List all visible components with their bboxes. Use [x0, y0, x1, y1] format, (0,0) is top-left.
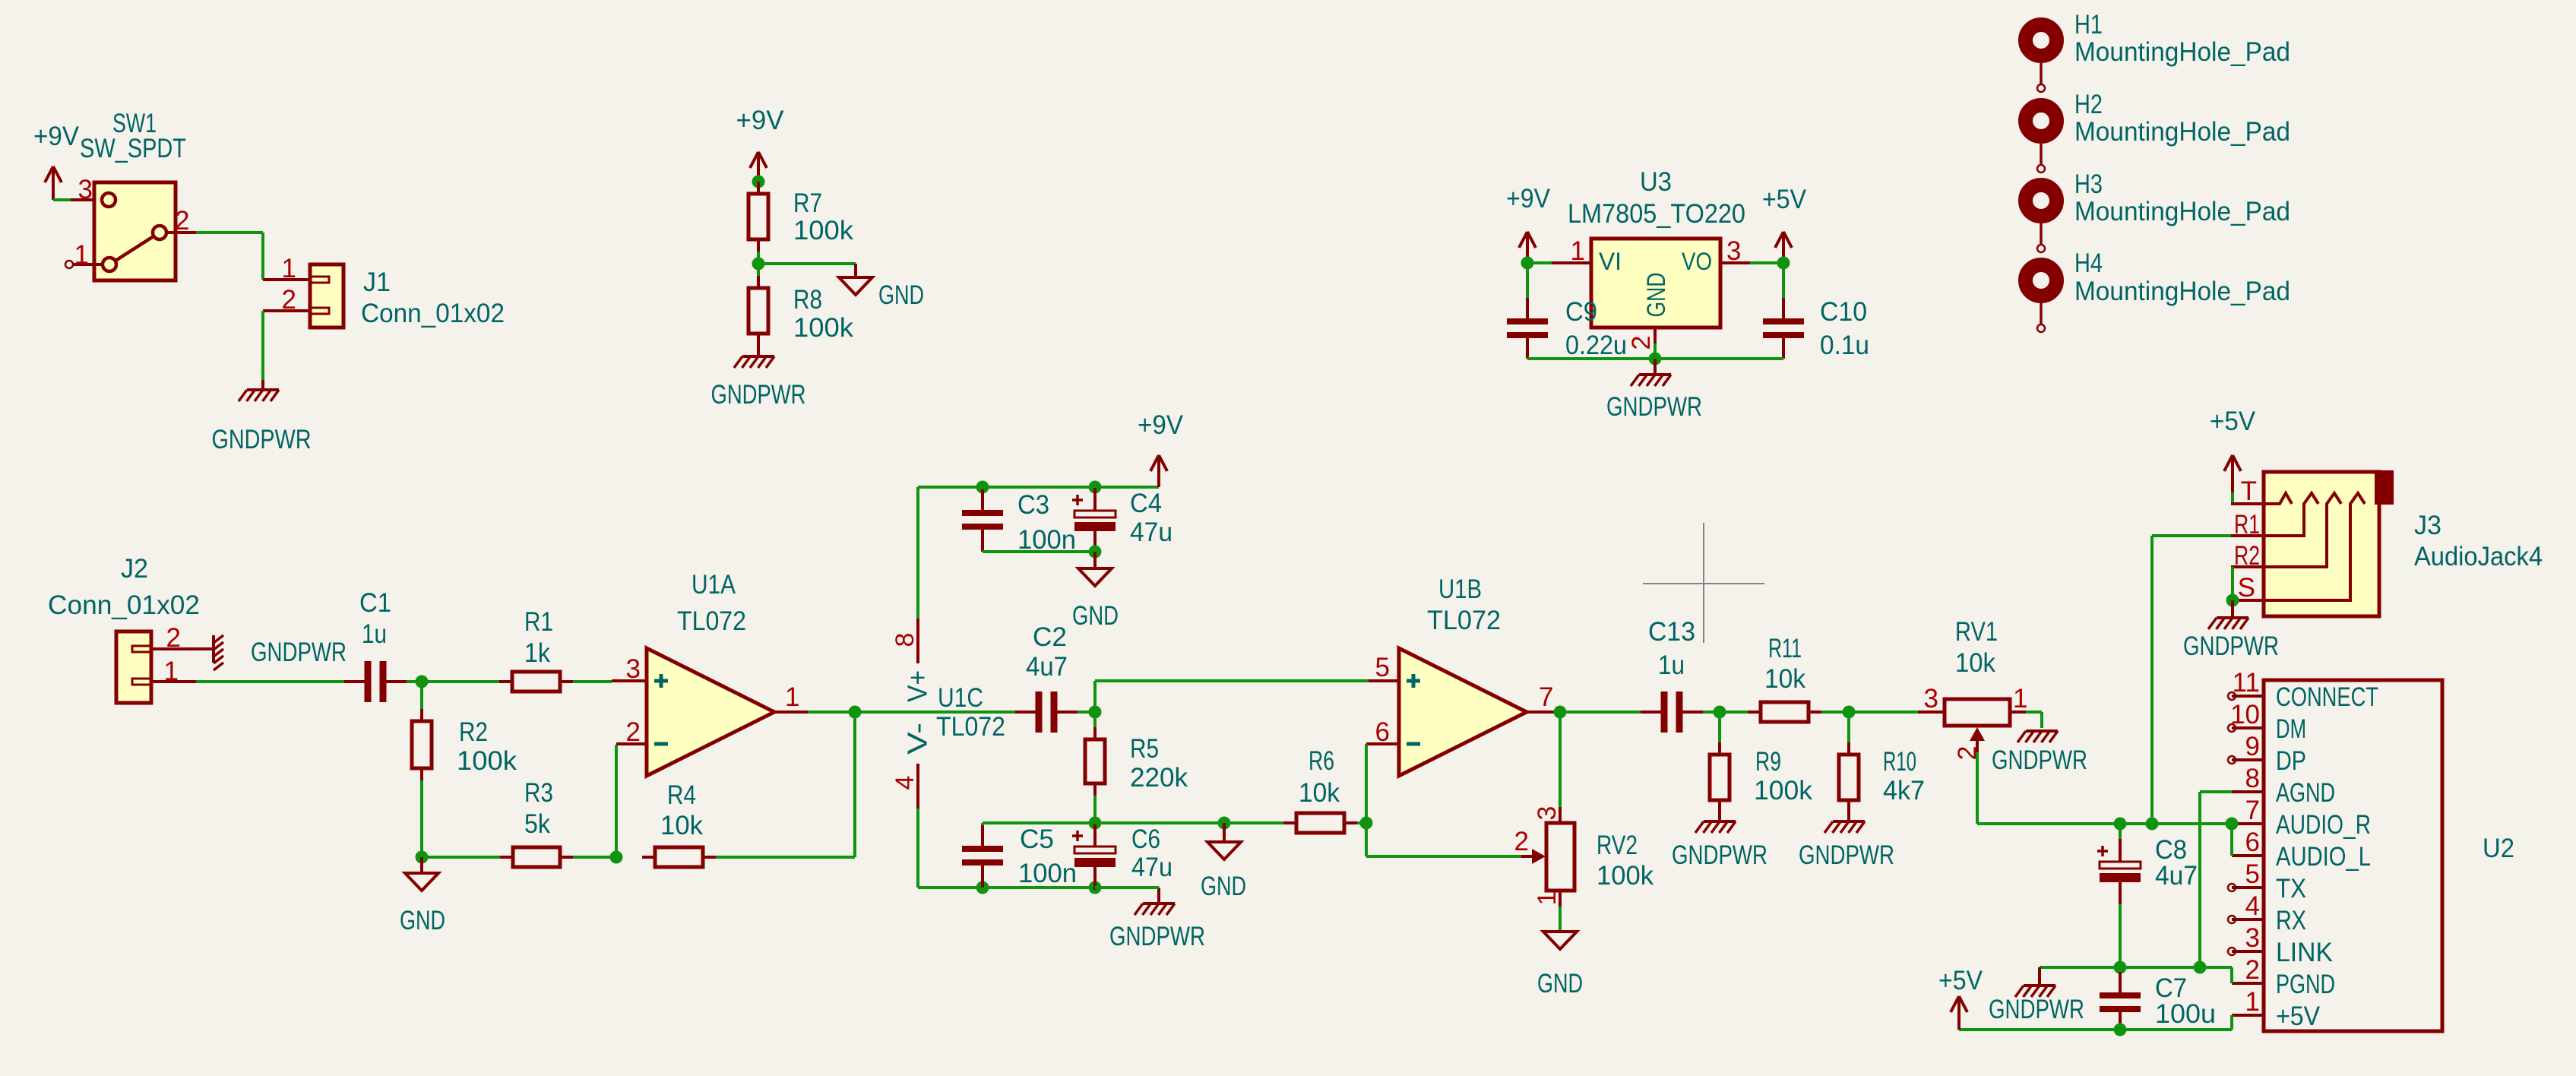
svg-text:10k: 10k — [1955, 648, 1995, 678]
svg-text:R3: R3 — [524, 778, 553, 808]
svg-text:GNDPWR: GNDPWR — [711, 380, 806, 410]
svg-text:C1: C1 — [359, 588, 391, 618]
svg-text:4u7: 4u7 — [1026, 652, 1068, 682]
svg-text:4u7: 4u7 — [2155, 861, 2198, 891]
svg-text:GND: GND — [878, 280, 924, 310]
svg-text:R10: R10 — [1883, 747, 1916, 777]
svg-text:10k: 10k — [1764, 664, 1805, 694]
svg-text:J1: J1 — [363, 267, 391, 297]
svg-text:3: 3 — [1533, 806, 1562, 821]
svg-text:R5: R5 — [1130, 734, 1159, 764]
svg-text:3: 3 — [1924, 684, 1938, 714]
svg-text:8: 8 — [2245, 764, 2260, 793]
svg-text:7: 7 — [1539, 682, 1553, 712]
svg-text:1: 1 — [74, 240, 89, 270]
svg-text:10k: 10k — [1299, 778, 1340, 808]
svg-text:1: 1 — [282, 254, 296, 283]
svg-text:C3: C3 — [1017, 490, 1049, 520]
svg-text:GND: GND — [1072, 601, 1119, 631]
svg-text:9: 9 — [2245, 732, 2260, 761]
svg-text:C6: C6 — [1131, 824, 1160, 854]
svg-text:LM7805_TO220: LM7805_TO220 — [1568, 199, 1745, 229]
svg-text:C10: C10 — [1820, 297, 1867, 327]
svg-text:R1: R1 — [2234, 510, 2260, 540]
svg-text:GNDPWR: GNDPWR — [251, 638, 347, 667]
svg-text:8: 8 — [891, 633, 919, 647]
svg-text:GNDPWR: GNDPWR — [1606, 392, 1702, 422]
svg-text:U1A: U1A — [691, 570, 736, 600]
svg-text:2: 2 — [1514, 827, 1529, 856]
svg-text:+9V: +9V — [736, 106, 785, 135]
svg-text:C13: C13 — [1648, 617, 1695, 647]
svg-text:DP: DP — [2276, 746, 2306, 776]
svg-text:100n: 100n — [1018, 859, 1077, 888]
svg-text:GND: GND — [1537, 969, 1583, 998]
svg-text:AUDIO_R: AUDIO_R — [2276, 810, 2371, 840]
svg-text:MountingHole_Pad: MountingHole_Pad — [2074, 117, 2290, 147]
svg-text:+5V: +5V — [1938, 966, 1983, 995]
svg-text:R8: R8 — [793, 285, 822, 315]
svg-text:1: 1 — [1533, 891, 1562, 906]
svg-text:100k: 100k — [1754, 776, 1812, 805]
svg-text:220k: 220k — [1130, 763, 1188, 793]
svg-text:100k: 100k — [457, 746, 517, 776]
svg-text:2: 2 — [626, 717, 641, 747]
svg-text:1: 1 — [164, 657, 179, 686]
svg-text:C9: C9 — [1565, 297, 1597, 327]
svg-text:2: 2 — [2245, 955, 2260, 985]
svg-text:+9V: +9V — [1506, 184, 1551, 214]
svg-text:3: 3 — [626, 654, 641, 684]
svg-text:GND: GND — [1642, 273, 1671, 318]
svg-text:GNDPWR: GNDPWR — [1989, 995, 2084, 1024]
svg-text:1k: 1k — [524, 638, 550, 668]
svg-text:U2: U2 — [2483, 834, 2514, 863]
svg-text:GND: GND — [400, 906, 445, 935]
svg-text:RX: RX — [2276, 906, 2306, 935]
svg-text:SW_SPDT: SW_SPDT — [80, 134, 186, 163]
svg-text:CONNECT: CONNECT — [2276, 682, 2378, 712]
svg-text:+9V: +9V — [1138, 410, 1184, 440]
svg-text:100k: 100k — [793, 313, 854, 343]
svg-text:GNDPWR: GNDPWR — [1799, 840, 1894, 870]
svg-text:1u: 1u — [362, 619, 387, 649]
svg-text:GND: GND — [1201, 872, 1246, 901]
svg-text:R2: R2 — [459, 717, 488, 747]
svg-text:47u: 47u — [1130, 517, 1172, 547]
svg-text:V-: V- — [902, 723, 933, 755]
svg-text:U1C: U1C — [938, 683, 983, 713]
svg-text:V+: V+ — [902, 670, 933, 702]
svg-text:0.22u: 0.22u — [1565, 331, 1627, 360]
svg-text:10k: 10k — [660, 811, 703, 840]
svg-text:S: S — [2238, 573, 2255, 603]
svg-text:MountingHole_Pad: MountingHole_Pad — [2074, 37, 2290, 67]
svg-text:C5: C5 — [1020, 824, 1054, 854]
svg-text:T: T — [2241, 476, 2257, 506]
svg-text:H2: H2 — [2074, 90, 2103, 119]
svg-text:1: 1 — [2245, 987, 2260, 1017]
svg-text:TX: TX — [2276, 874, 2306, 904]
svg-text:Conn_01x02: Conn_01x02 — [48, 590, 200, 620]
svg-text:GNDPWR: GNDPWR — [2183, 631, 2279, 661]
svg-text:U1B: U1B — [1438, 574, 1482, 604]
svg-text:GNDPWR: GNDPWR — [212, 425, 312, 454]
svg-text:1u: 1u — [1658, 650, 1685, 680]
svg-text:C2: C2 — [1033, 622, 1067, 652]
svg-text:U3: U3 — [1640, 167, 1672, 197]
svg-text:TL072: TL072 — [677, 606, 746, 636]
svg-text:+5V: +5V — [1762, 185, 1807, 214]
svg-text:0.1u: 0.1u — [1820, 331, 1869, 360]
svg-text:MountingHole_Pad: MountingHole_Pad — [2074, 277, 2290, 306]
svg-text:2: 2 — [175, 206, 189, 236]
svg-text:C4: C4 — [1130, 489, 1162, 518]
svg-text:5: 5 — [1375, 653, 1390, 682]
svg-text:RV2: RV2 — [1597, 831, 1638, 860]
svg-text:R1: R1 — [524, 607, 553, 637]
svg-text:6: 6 — [1375, 717, 1390, 747]
svg-text:H3: H3 — [2074, 169, 2103, 199]
svg-text:2: 2 — [1627, 336, 1656, 350]
svg-text:PGND: PGND — [2276, 970, 2335, 999]
svg-text:5k: 5k — [524, 809, 550, 839]
svg-text:AudioJack4: AudioJack4 — [2414, 542, 2543, 571]
svg-text:47u: 47u — [1131, 853, 1172, 882]
svg-text:1: 1 — [785, 682, 799, 712]
svg-text:TL072: TL072 — [936, 712, 1005, 742]
svg-text:VI: VI — [1599, 248, 1622, 275]
svg-text:LINK: LINK — [2276, 938, 2333, 967]
svg-text:Conn_01x02: Conn_01x02 — [361, 299, 505, 328]
svg-text:+5V: +5V — [2210, 407, 2256, 436]
svg-text:4: 4 — [891, 776, 919, 790]
svg-text:5: 5 — [2245, 859, 2260, 889]
svg-text:3: 3 — [2245, 923, 2260, 953]
svg-text:R2: R2 — [2234, 541, 2260, 571]
svg-text:MountingHole_Pad: MountingHole_Pad — [2074, 197, 2290, 226]
svg-text:J2: J2 — [121, 554, 148, 584]
svg-text:2: 2 — [282, 285, 296, 315]
svg-text:1: 1 — [2013, 684, 2027, 714]
svg-text:+5V: +5V — [2276, 1002, 2321, 1031]
svg-text:GNDPWR: GNDPWR — [1672, 840, 1767, 870]
svg-text:VO: VO — [1682, 248, 1712, 275]
svg-text:R11: R11 — [1768, 634, 1802, 663]
svg-text:6: 6 — [2245, 828, 2260, 857]
svg-text:TL072: TL072 — [1427, 606, 1501, 635]
svg-text:4: 4 — [2245, 891, 2260, 921]
svg-text:H4: H4 — [2074, 248, 2103, 278]
svg-text:R9: R9 — [1755, 747, 1781, 777]
svg-text:GNDPWR: GNDPWR — [1109, 922, 1205, 951]
svg-text:100k: 100k — [793, 216, 854, 245]
svg-text:AUDIO_L: AUDIO_L — [2276, 842, 2371, 872]
svg-text:1: 1 — [1571, 236, 1585, 266]
svg-text:GNDPWR: GNDPWR — [1992, 745, 2087, 775]
svg-text:4k7: 4k7 — [1883, 776, 1925, 805]
svg-text:7: 7 — [2245, 796, 2260, 825]
svg-text:DM: DM — [2276, 714, 2306, 744]
svg-text:3: 3 — [1726, 236, 1741, 266]
svg-text:RV1: RV1 — [1955, 617, 1998, 647]
svg-text:AGND: AGND — [2276, 778, 2335, 808]
svg-text:H1: H1 — [2074, 10, 2103, 40]
svg-text:R7: R7 — [793, 188, 822, 218]
svg-text:R6: R6 — [1309, 746, 1334, 776]
svg-text:11: 11 — [2233, 668, 2260, 698]
svg-text:J3: J3 — [2414, 511, 2442, 540]
svg-text:100k: 100k — [1597, 861, 1654, 891]
svg-text:+9V: +9V — [33, 122, 80, 151]
svg-text:3: 3 — [78, 175, 93, 204]
svg-text:100u: 100u — [2155, 999, 2216, 1029]
svg-text:2: 2 — [166, 623, 181, 653]
svg-text:R4: R4 — [667, 780, 696, 810]
